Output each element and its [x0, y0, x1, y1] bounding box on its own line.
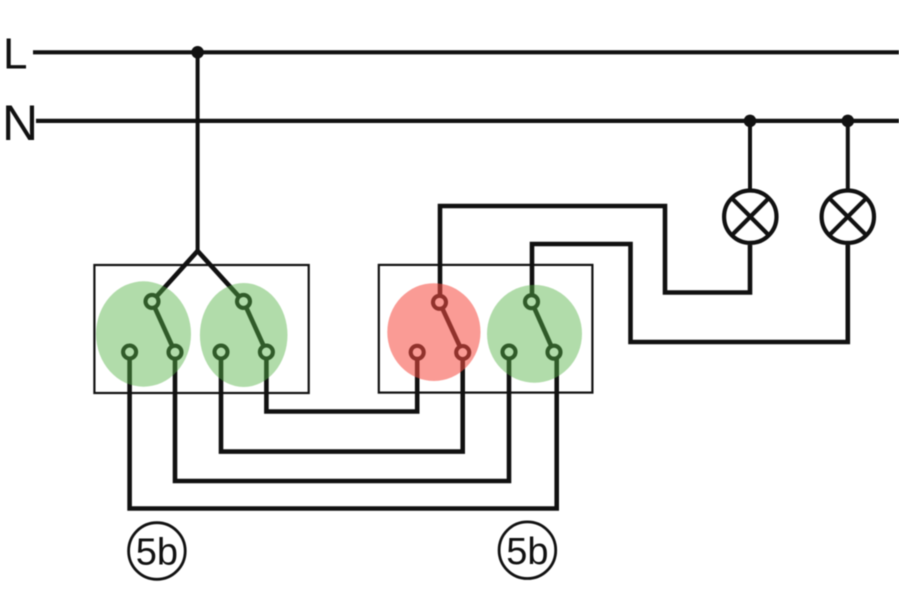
svg-text:5b: 5b — [136, 532, 178, 574]
svg-text:L: L — [3, 30, 27, 79]
svg-text:N: N — [2, 95, 38, 151]
svg-text:5b: 5b — [506, 531, 548, 573]
